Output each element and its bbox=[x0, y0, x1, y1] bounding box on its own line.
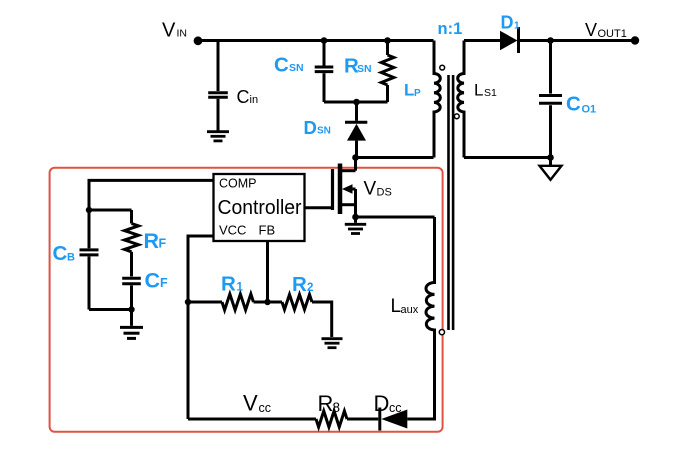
resistor R8 bbox=[188, 411, 378, 427]
capacitor CB bbox=[80, 210, 99, 310]
wire FB pin down bbox=[266, 241, 269, 302]
wire VCC to left rail down to Vcc rail bbox=[188, 236, 214, 419]
svg-text:V: V bbox=[243, 391, 258, 416]
ground at Cin bbox=[207, 132, 229, 141]
svg-text:C: C bbox=[274, 54, 289, 77]
controller section boundary box (red) bbox=[50, 168, 443, 432]
svg-text:L: L bbox=[474, 81, 483, 100]
node snubber bottom junction bbox=[353, 99, 360, 106]
wire COMP to compensation network bbox=[89, 180, 214, 210]
svg-text:V: V bbox=[162, 20, 176, 42]
svg-text:C: C bbox=[566, 93, 581, 116]
svg-text:SN: SN bbox=[317, 125, 331, 136]
wire snubber bottom rail bbox=[324, 101, 388, 104]
svg-text:in: in bbox=[250, 94, 259, 106]
svg-text:FB: FB bbox=[259, 223, 276, 238]
wire drain rail to primary bottom bbox=[356, 156, 434, 159]
ground at MOSFET source bbox=[354, 217, 357, 223]
svg-text:D: D bbox=[304, 117, 317, 138]
wire comp bottom link bbox=[89, 308, 132, 311]
resistor R1 bbox=[188, 294, 268, 310]
inductor Laux auxiliary winding bbox=[407, 217, 434, 419]
controller U1 box bbox=[214, 174, 305, 241]
diode Dcc bbox=[380, 408, 408, 431]
svg-text:P: P bbox=[414, 88, 421, 99]
ground at R2 bbox=[322, 339, 343, 348]
node source junction bbox=[352, 214, 359, 221]
aux phase dot bbox=[439, 330, 444, 335]
inductor LP primary winding bbox=[434, 41, 440, 158]
resistor RSN bbox=[381, 41, 394, 103]
wire D1 to VOUT1 bbox=[519, 39, 636, 42]
diode D1 bbox=[500, 27, 519, 53]
svg-text:R: R bbox=[221, 273, 236, 296]
svg-text:Controller: Controller bbox=[218, 196, 302, 219]
secondary phase dot bbox=[454, 114, 459, 119]
svg-text:cc: cc bbox=[259, 401, 272, 415]
node RSN top junction bbox=[384, 37, 391, 44]
svg-text:SN: SN bbox=[289, 62, 304, 74]
node comp junction bbox=[86, 207, 92, 213]
svg-text:VCC: VCC bbox=[219, 223, 246, 238]
inductor LS1 secondary winding bbox=[458, 41, 464, 158]
svg-text:L: L bbox=[391, 296, 402, 317]
wire secondary top to D1 bbox=[464, 39, 500, 42]
svg-text:R: R bbox=[144, 229, 160, 253]
svg-text:n:1: n:1 bbox=[438, 20, 463, 38]
svg-text:1: 1 bbox=[237, 282, 244, 294]
capacitor CF bbox=[122, 278, 141, 309]
transistor Q1 MOSFET bbox=[333, 158, 356, 218]
svg-text:F: F bbox=[159, 237, 167, 251]
svg-text:8: 8 bbox=[333, 400, 341, 415]
svg-text:COMP: COMP bbox=[219, 177, 257, 191]
resistor RF bbox=[125, 210, 139, 276]
svg-text:1: 1 bbox=[514, 20, 520, 31]
svg-text:D: D bbox=[374, 391, 390, 416]
svg-text:B: B bbox=[67, 252, 75, 264]
svg-text:2: 2 bbox=[307, 282, 313, 294]
svg-text:R: R bbox=[318, 391, 334, 416]
wire secondary bottom rail bbox=[464, 156, 551, 159]
svg-text:V: V bbox=[585, 20, 597, 40]
capacitor CO1 bbox=[539, 41, 562, 158]
svg-text:F: F bbox=[160, 276, 168, 290]
node R1 R2 FB junction bbox=[264, 299, 270, 305]
svg-text:C: C bbox=[145, 269, 161, 293]
node VIN dot bbox=[194, 36, 203, 45]
resistor R2 bbox=[268, 295, 332, 338]
node CO1 bottom junction bbox=[547, 154, 554, 161]
wire gate from controller bbox=[305, 206, 332, 209]
capacitor Cin bbox=[208, 41, 228, 131]
node comp ground junction bbox=[128, 306, 134, 312]
ground at compensation network bbox=[130, 310, 133, 326]
svg-text:SN: SN bbox=[357, 63, 372, 75]
svg-text:S1: S1 bbox=[484, 87, 497, 99]
svg-text:OUT1: OUT1 bbox=[598, 28, 627, 40]
node CSN top junction bbox=[321, 37, 328, 44]
svg-text:C: C bbox=[237, 87, 250, 107]
svg-text:IN: IN bbox=[177, 28, 188, 40]
node VOUT1 end dot bbox=[631, 36, 639, 44]
wire source to aux winding bbox=[356, 216, 435, 219]
svg-text:D: D bbox=[501, 12, 514, 32]
wire comp junction to RF top bbox=[89, 209, 132, 212]
node output junction bbox=[547, 37, 554, 44]
node drain junction bbox=[352, 154, 359, 161]
svg-text:L: L bbox=[404, 81, 414, 100]
transformer core bbox=[449, 75, 454, 330]
ground at CO1 (open triangle) bbox=[549, 158, 552, 166]
svg-text:R: R bbox=[292, 273, 307, 296]
svg-text:V: V bbox=[364, 179, 377, 200]
capacitor CSN bbox=[315, 41, 334, 103]
svg-text:cc: cc bbox=[389, 401, 402, 415]
svg-text:C: C bbox=[53, 242, 68, 265]
primary phase dot bbox=[440, 65, 445, 70]
diode DSN bbox=[345, 102, 367, 158]
node R1 left junction bbox=[185, 299, 191, 305]
svg-text:DS: DS bbox=[377, 187, 392, 199]
svg-text:aux: aux bbox=[401, 304, 419, 316]
wire top rail VIN to primary bbox=[198, 39, 434, 42]
svg-text:O1: O1 bbox=[582, 104, 597, 116]
